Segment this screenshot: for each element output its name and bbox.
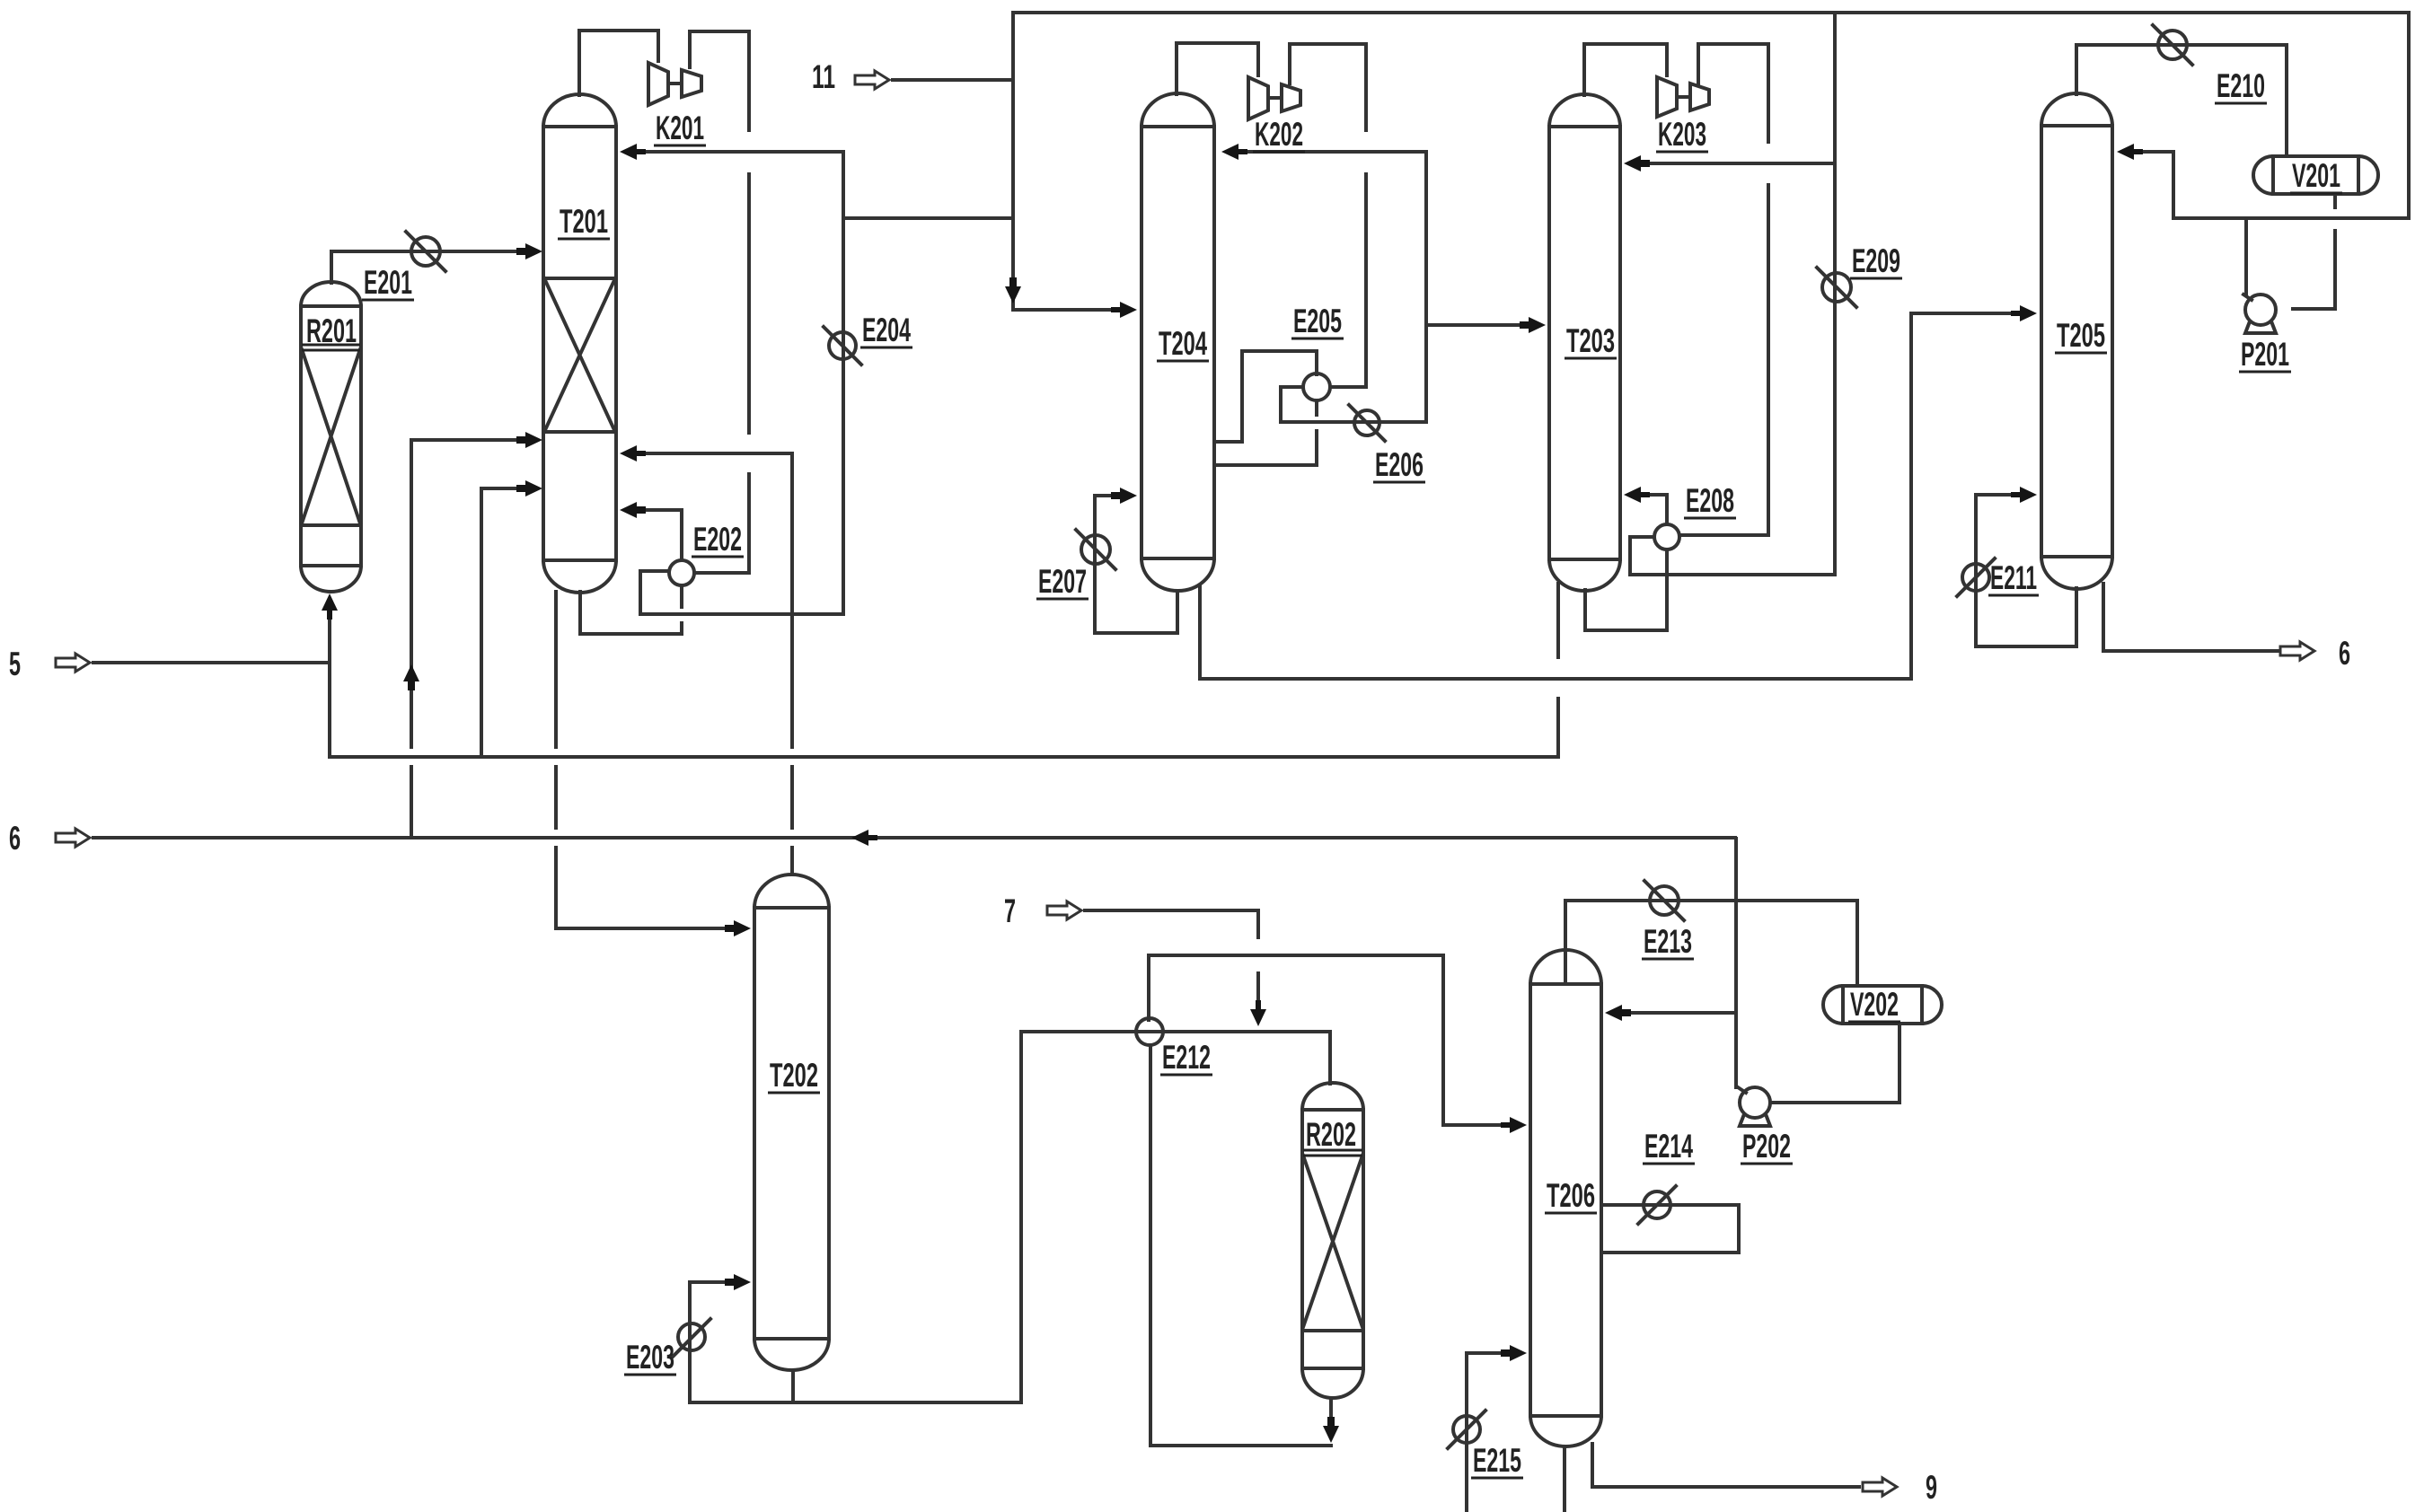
label P201: [2239, 336, 2291, 373]
heat exchanger E209: [1817, 268, 1856, 307]
wire T202 vapor into T201 y=505: [641, 452, 792, 455]
arrow down R202 bottoms: [1323, 1417, 1339, 1443]
svg-text:E206: E206: [1375, 446, 1424, 483]
column T206: [1530, 950, 1601, 1446]
label E212: [1160, 1039, 1212, 1076]
wire R201 to E201 to T201: [331, 250, 521, 253]
svg-text:E213: E213: [1644, 923, 1692, 960]
wire E212 cold line to R202: [1021, 1032, 1330, 1084]
label T206: [1545, 1177, 1597, 1214]
label E207: [1036, 563, 1089, 600]
wire R202 bottoms to E212 hot side: [1150, 1045, 1331, 1446]
svg-text:E201: E201: [364, 264, 412, 301]
wire T202 bottoms header y=1562: [690, 1372, 1021, 1402]
svg-text:V202: V202: [1850, 986, 1899, 1023]
svg-text:E209: E209: [1852, 242, 1900, 279]
wire V202 bottom to P202: [1773, 1024, 1900, 1103]
svg-text:P201: P201: [2241, 336, 2289, 373]
label E205: [1291, 303, 1344, 339]
heat exchanger E208: [1654, 524, 1679, 549]
wire E202 left outlet loop: [640, 571, 843, 614]
wire E203 reboiler loop T202: [690, 1282, 727, 1402]
svg-text:E212: E212: [1162, 1039, 1211, 1076]
wire vertical x=458 from stream6 line: [410, 440, 413, 838]
stream arrow 7: [1004, 892, 1081, 929]
wire feed 5 to R201 riser: [93, 661, 330, 664]
heat exchanger E212: [1136, 1018, 1163, 1045]
svg-text:K203: K203: [1658, 116, 1706, 153]
heat exchanger E211: [1957, 558, 1995, 596]
svg-text:E202: E202: [693, 521, 742, 558]
wire K201 discharge into E202: [690, 31, 749, 573]
label T204: [1157, 325, 1209, 362]
wire E208 outlet loop to E209: [1630, 537, 1835, 575]
wire into T201 left y=544: [481, 487, 521, 490]
wire stream 6 long line y=933: [93, 836, 1735, 840]
wire T205 bottoms to stream 6 out: [2103, 584, 2280, 651]
svg-text:5: 5: [9, 646, 21, 682]
wire T203 bottoms to E208 reboiler: [1585, 549, 1667, 630]
stream arrow 6 left: [9, 820, 90, 857]
wire T204 bottoms to T205 feed: [1200, 313, 2014, 679]
wire T202 bottoms riser to E212: [1019, 1032, 1023, 1402]
label T201: [558, 203, 610, 240]
wire recycle T203 bottoms to R201 y=843: [330, 755, 1558, 759]
heat exchanger E203: [673, 1319, 710, 1357]
svg-text:V201: V201: [2292, 157, 2340, 194]
arrow up on x=458: [403, 664, 419, 690]
heat exchanger E213: [1644, 881, 1684, 920]
svg-text:T205: T205: [2057, 317, 2105, 354]
svg-text:T203: T203: [1566, 322, 1615, 359]
wire P202 discharge riser: [1734, 839, 1738, 1087]
wire T203 overhead to K203: [1584, 44, 1667, 95]
svg-text:T204: T204: [1159, 325, 1207, 362]
wire stream 11 into junction: [893, 78, 1013, 82]
heat exchanger E207: [1076, 530, 1115, 569]
arrow down stream 7: [1250, 1000, 1266, 1026]
arrow into R201 bottom: [322, 593, 338, 620]
wire return into T201 upper left y=490: [411, 438, 521, 442]
compressor K202: [1248, 77, 1300, 119]
column T203: [1549, 94, 1620, 591]
label P202: [1741, 1128, 1793, 1165]
label T205: [2055, 317, 2107, 354]
vessel V202: [1823, 986, 1942, 1024]
wire E202 vapor return into T201 y=568: [641, 510, 682, 560]
label T203: [1565, 322, 1617, 359]
label E215: [1471, 1442, 1523, 1479]
svg-text:9: 9: [1926, 1469, 1937, 1506]
label E204: [860, 312, 912, 348]
wire vertical x=2043 E209 riser: [1833, 13, 1837, 575]
heat exchanger E201: [406, 232, 445, 271]
column T201: [543, 94, 616, 593]
svg-text:E211: E211: [1990, 559, 2037, 596]
wire T206 overhead through E213 to V202: [1565, 901, 1857, 986]
heat exchanger E215: [1448, 1411, 1485, 1448]
column T205: [2041, 93, 2112, 589]
label K203: [1656, 116, 1708, 153]
wire E215 reboiler loop T206: [1467, 1353, 1565, 1512]
wire T203 bottoms recycle down: [1556, 584, 1560, 757]
label V201: [2290, 157, 2342, 194]
svg-text:T206: T206: [1547, 1177, 1595, 1214]
label E201: [362, 264, 414, 301]
wire T202 top vapor nozzle: [790, 848, 794, 874]
wire T204 side draw to E205 top: [1214, 351, 1317, 442]
label E213: [1642, 923, 1694, 960]
svg-text:T201: T201: [560, 203, 608, 240]
heat exchanger E210: [2153, 25, 2192, 65]
svg-text:E214: E214: [1644, 1128, 1693, 1165]
wire T206 bottoms to stream 9: [1592, 1444, 1859, 1487]
wire E205 bottom return to T204: [1214, 401, 1317, 465]
wire V201 bottom to P201: [2293, 194, 2335, 309]
wire P201 discharge riser: [2244, 218, 2248, 294]
wire T201 overhead to K201: [579, 31, 658, 95]
svg-text:E210: E210: [2217, 67, 2265, 104]
wire E214 pumparound loop: [1601, 1205, 1739, 1253]
svg-text:E215: E215: [1473, 1442, 1521, 1479]
wire T205 overhead through E210 to V201: [2076, 45, 2287, 156]
stream arrow 6 right: [2280, 635, 2350, 672]
svg-text:E208: E208: [1686, 482, 1734, 519]
compressor K201: [648, 63, 701, 105]
label V202: [1848, 986, 1900, 1023]
svg-text:T202: T202: [770, 1057, 818, 1094]
label E208: [1684, 482, 1736, 519]
column T202: [754, 875, 829, 1370]
wire top border recycle line y=14: [1013, 11, 2409, 14]
label K202: [1253, 116, 1305, 153]
wire E205 left through E206: [1281, 387, 1426, 422]
svg-text:7: 7: [1004, 892, 1016, 929]
reactor R202: [1302, 1083, 1363, 1398]
svg-text:E204: E204: [862, 312, 911, 348]
stream arrow 5: [9, 646, 90, 682]
svg-text:K202: K202: [1255, 116, 1303, 153]
label E209: [1850, 242, 1902, 279]
heat exchanger E214: [1638, 1186, 1676, 1224]
label E214: [1643, 1128, 1695, 1165]
wire E207 reboiler loop T204: [1095, 496, 1177, 633]
wire T204 overhead to K202: [1177, 43, 1258, 94]
wire E211 reboiler loop T205: [1976, 495, 2076, 646]
wire K203 discharge down to E208: [1679, 44, 1768, 535]
vessel V201: [2253, 156, 2378, 194]
wire K202 discharge down to E205: [1290, 44, 1366, 387]
wire T201 reflux return y=169: [641, 150, 843, 154]
svg-text:E207: E207: [1038, 563, 1087, 600]
compressor K203: [1657, 77, 1709, 117]
wire vertical x=1588 E206 outlet: [1424, 152, 1428, 422]
svg-text:11: 11: [812, 58, 835, 95]
wire return into T203 top y=182: [1647, 162, 1835, 165]
heat exchanger E204: [824, 327, 861, 365]
wire reflux header y=243: [2139, 13, 2409, 218]
label E203: [624, 1339, 676, 1376]
reactor R201: [301, 282, 361, 592]
wire stream 7 into line: [1085, 910, 1258, 998]
wire vertical x=882 T202 overhead: [790, 453, 794, 874]
svg-text:6: 6: [9, 820, 21, 857]
wire branch to T203 feed y=362: [1426, 323, 1523, 327]
wire T201 bottoms to T202: [556, 592, 727, 928]
heat exchanger E202: [669, 560, 694, 585]
wire R201 feed riser: [328, 603, 331, 757]
wire junction vertical x=1128 into T204: [1013, 13, 1114, 310]
svg-text:K201: K201: [656, 110, 704, 146]
svg-text:R202: R202: [1306, 1116, 1356, 1153]
label E206: [1373, 446, 1425, 483]
svg-text:E205: E205: [1293, 303, 1342, 339]
label T202: [768, 1057, 820, 1094]
wire T201 bottoms to E202 reboiler: [580, 585, 682, 634]
stream arrow 9: [1863, 1469, 1937, 1506]
wire return into T204 top y=169: [1245, 150, 1426, 154]
arrow into T201 feed: [516, 243, 542, 259]
label K201: [654, 110, 706, 146]
pump P202: [1738, 1087, 1770, 1126]
svg-text:6: 6: [2339, 635, 2350, 672]
svg-text:E203: E203: [626, 1339, 674, 1376]
arrow left on y=933: [851, 830, 877, 846]
stream arrow 11: [812, 58, 889, 95]
column T204: [1141, 93, 1214, 591]
wire branch y=243 to T204 feed junction: [843, 216, 1013, 220]
svg-text:P202: P202: [1742, 1128, 1791, 1165]
svg-text:R201: R201: [306, 312, 357, 349]
heat exchanger E206: [1349, 405, 1385, 441]
wire vertical x=536 to recycle line: [480, 488, 483, 757]
wire vertical x=939 E202 to E204 to T201: [842, 152, 845, 614]
wire E208 vapor return to T203: [1647, 495, 1667, 524]
arrow down on x=1128: [1005, 277, 1021, 303]
wire E212 hot outlet to T206 feed: [1149, 955, 1503, 1125]
label E202: [692, 521, 744, 558]
label E210: [2215, 67, 2267, 104]
wire R201 top nozzle: [330, 251, 333, 283]
label E211: [1988, 559, 2039, 596]
heat exchanger E205: [1303, 374, 1330, 400]
wire P202 reflux into T206: [1628, 1011, 1736, 1015]
pump P201: [2243, 294, 2276, 333]
